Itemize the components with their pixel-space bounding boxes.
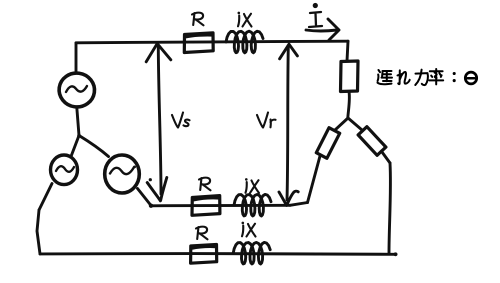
wire junction to G3 [79, 136, 109, 157]
kana れ [398, 70, 410, 84]
label jX top [238, 12, 252, 27]
label R top [192, 13, 204, 26]
arrow Vr (double headed) [287, 46, 288, 200]
wire left branch upper [335, 118, 348, 130]
node junction dot [77, 134, 81, 138]
wire top-right vertical to load [347, 41, 348, 61]
arrow I [306, 30, 337, 31]
resistor R middle [192, 196, 220, 216]
source G3 (AC circle) [105, 155, 140, 193]
wire junction to G1 [77, 108, 79, 136]
wire G3 to middle wire [138, 189, 152, 206]
label I with dot [309, 12, 322, 27]
wire bottom-left vertical [37, 210, 40, 254]
wire top-left vertical [75, 43, 78, 71]
label Vs [172, 113, 190, 128]
ink blob middle wire start [149, 204, 153, 208]
resistor R bottom [191, 245, 217, 264]
inductor jX middle [234, 194, 271, 216]
wire right vertical [389, 163, 390, 253]
ink dot near Vs arrow [149, 178, 152, 181]
kanji 遅 [378, 70, 392, 84]
theta [465, 72, 476, 84]
wire right branch upper [348, 118, 362, 130]
label jX bottom [242, 222, 256, 237]
wire G2 to junction [71, 136, 79, 157]
label R middle [199, 178, 211, 191]
resistor R top [184, 33, 213, 53]
wire top horizontal [76, 41, 348, 43]
kanji 力 [415, 70, 428, 85]
inductor jX top [226, 31, 263, 53]
node bottom-right dot [394, 252, 398, 256]
arrow Vs (double headed) [158, 47, 161, 194]
source G1 (AC circle) [57, 71, 97, 109]
kanji 率 [429, 69, 443, 84]
source G2 (AC circle) [51, 155, 78, 185]
wire middle horizontal [151, 204, 290, 207]
wire middle rise to branch [290, 203, 308, 206]
resistor load top (vertical rect) [341, 61, 359, 92]
resistor load left (tilted rect) [316, 128, 339, 159]
inductor jX bottom [233, 242, 270, 264]
wire right branch lower [382, 152, 390, 163]
label Vr [257, 113, 276, 128]
wire bottom horizontal [40, 252, 396, 256]
wire to source G2 [39, 184, 52, 211]
text 遅れ力率：Θ drawn as strokes [378, 69, 477, 85]
label jX middle [245, 178, 259, 193]
fullwidth colon [453, 72, 456, 75]
label R bottom [196, 227, 208, 240]
wire load top rect to center node [348, 92, 350, 119]
resistor load right (tilted rect) [358, 127, 386, 156]
wire left branch lower [308, 156, 321, 203]
